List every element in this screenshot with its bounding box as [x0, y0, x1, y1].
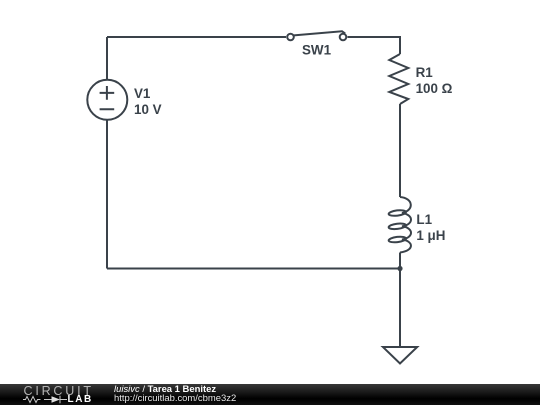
svg-text:R1: R1 [416, 65, 434, 80]
svg-text:SW1: SW1 [302, 43, 332, 58]
svg-text:L1: L1 [416, 212, 432, 227]
svg-text:10 V: 10 V [134, 102, 162, 117]
svg-text:100 Ω: 100 Ω [416, 81, 453, 96]
svg-text:1 μH: 1 μH [416, 228, 445, 243]
svg-text:V1: V1 [134, 86, 151, 101]
